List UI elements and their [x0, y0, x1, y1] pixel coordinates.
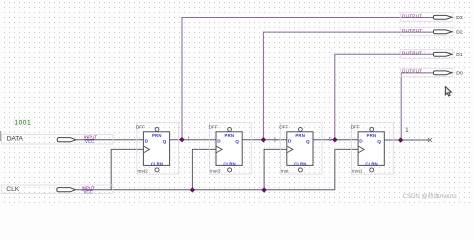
output pin D0	[401, 68, 463, 77]
junction node after inst3 Q	[261, 137, 266, 142]
output pin D3	[401, 13, 463, 22]
svg-text:DFF: DFF	[351, 125, 360, 131]
svg-text:CSDN @热血momo: CSDN @热血momo	[403, 192, 458, 200]
D flip-flop U2 inst3	[209, 123, 252, 175]
wire D0 net: riser x401.2 and run to output D0	[401, 73, 433, 140]
svg-text:inst1: inst1	[352, 168, 363, 174]
junction node after inst1 Q	[398, 137, 403, 142]
junction node after inst2 Q	[179, 137, 184, 142]
open wire end X marker	[428, 138, 432, 142]
wire inst2 Q to inst3 D	[170, 139, 216, 141]
junction node after inst Q	[332, 137, 337, 142]
svg-text:DFF: DFF	[136, 125, 145, 131]
junction node CLK at inst riser	[261, 187, 266, 192]
input pin CLK	[2, 185, 113, 195]
svg-text:D1: D1	[456, 52, 463, 58]
svg-text:D0: D0	[456, 71, 463, 77]
wire CLK riser to inst3 clock	[192, 149, 216, 189]
svg-text:inst3: inst3	[210, 168, 221, 174]
wire CLK rail	[76, 149, 335, 189]
svg-text:inst: inst	[281, 168, 289, 174]
svg-text:VCC: VCC	[85, 139, 94, 144]
svg-text:DFF: DFF	[209, 125, 218, 131]
svg-text:OUTPUT: OUTPUT	[402, 28, 423, 33]
svg-text:DATA: DATA	[7, 136, 24, 143]
D flip-flop U3 inst	[279, 123, 322, 175]
mouse cursor	[445, 87, 451, 96]
svg-text:0: 0	[329, 137, 332, 143]
svg-text:inst2: inst2	[138, 168, 149, 174]
svg-text:OUTPUT: OUTPUT	[402, 13, 423, 18]
wire CLK run to inst1 clock	[335, 148, 358, 150]
wire CLK riser to inst clock	[264, 149, 287, 189]
wire inst Q to inst1 D	[313, 139, 358, 141]
input pin DATA	[1, 131, 113, 144]
wire inst3 Q to inst D	[242, 139, 287, 141]
wire inst1 Q to open end	[384, 139, 430, 141]
wire CLK riser to inst2 clock	[111, 149, 143, 189]
svg-text:VCC: VCC	[84, 190, 93, 195]
svg-text:OUTPUT: OUTPUT	[402, 68, 423, 73]
svg-text:1001: 1001	[15, 120, 32, 127]
svg-text:1: 1	[187, 137, 190, 143]
svg-text:D2: D2	[456, 30, 463, 36]
D flip-flop U1 inst2	[136, 123, 179, 175]
node label 1001 (green annotation)	[13, 119, 32, 127]
svg-text:DFF: DFF	[279, 125, 288, 131]
svg-text:OUTPUT: OUTPUT	[402, 50, 423, 55]
svg-text:0: 0	[274, 137, 277, 143]
D flip-flop U4 inst1	[351, 123, 394, 175]
svg-text:CLK: CLK	[6, 186, 20, 193]
wire D2 net: riser x263.4 and top run to output D2	[263, 32, 433, 140]
output pin D1	[401, 50, 463, 59]
output pin D2	[401, 27, 463, 36]
wire D1 net: riser x334.8 and run to output D1	[335, 54, 434, 140]
wire DATA pin to inst2 D input	[76, 139, 144, 141]
svg-text:D3: D3	[456, 15, 463, 21]
wire D3 net: riser x182 and top run to output D3	[182, 18, 434, 140]
junction node CLK at inst3 riser	[190, 187, 195, 192]
